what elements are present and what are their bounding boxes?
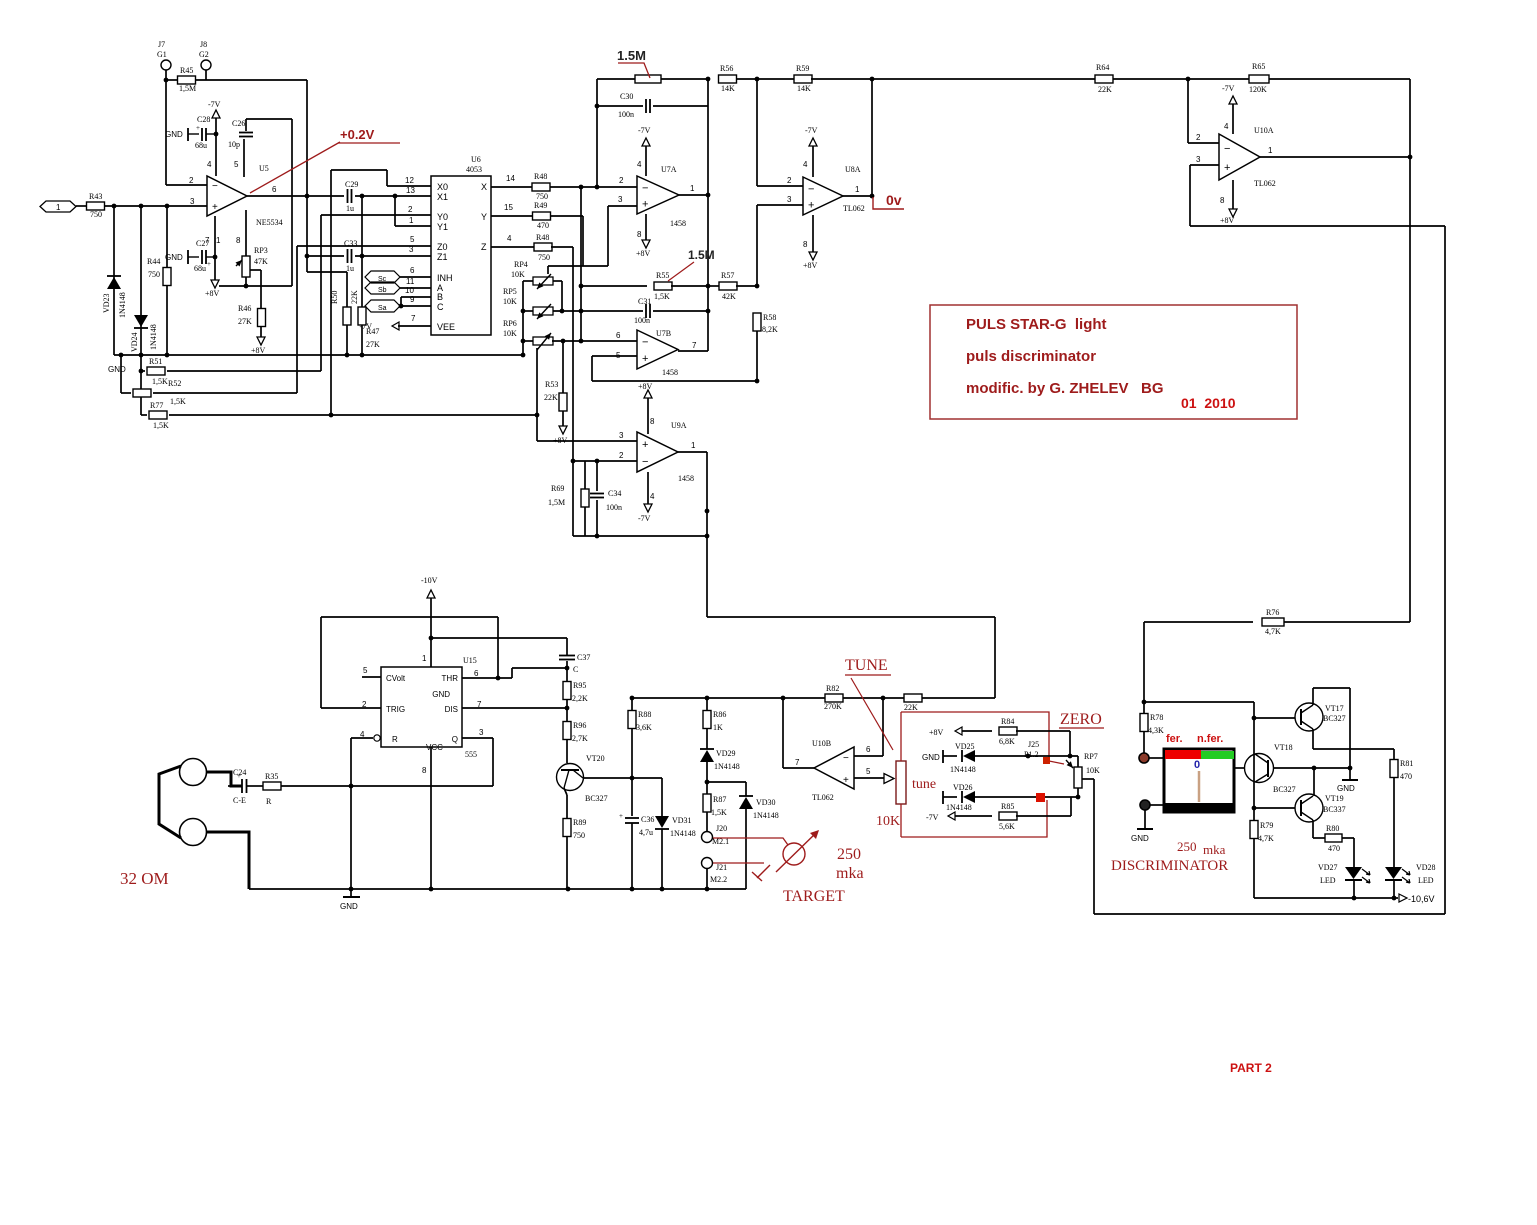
svg-text:R96: R96 — [573, 721, 586, 730]
resistor R43 — [87, 202, 105, 210]
junction VT17 base — [1252, 716, 1257, 721]
svg-text:3: 3 — [190, 197, 195, 206]
svg-text:J8: J8 — [200, 40, 207, 49]
wire to right column — [1269, 78, 1410, 80]
svg-text:U10B: U10B — [812, 739, 831, 748]
junction — [1352, 896, 1357, 901]
wire riser pin2 to pin6 — [580, 187, 582, 341]
wire VD27 bottom — [1353, 880, 1355, 898]
wire RP4 wiper up — [547, 266, 549, 274]
junction — [705, 509, 710, 514]
svg-text:1: 1 — [216, 236, 221, 245]
svg-text:3: 3 — [618, 195, 623, 204]
wire Q row to R35 — [280, 785, 493, 787]
svg-text:C28: C28 — [197, 115, 210, 124]
wire long to R64 — [811, 78, 1095, 80]
power +8V arrow — [211, 280, 219, 288]
svg-text:TARGET: TARGET — [783, 888, 845, 905]
diode VD26 1N4148 — [962, 791, 975, 803]
svg-text:7: 7 — [795, 758, 800, 767]
junction — [706, 77, 711, 82]
wire R pin4 — [351, 737, 373, 739]
svg-text:14K: 14K — [721, 84, 735, 93]
wire right column — [1409, 79, 1411, 622]
transistor VT17 BC327 — [1295, 703, 1323, 731]
op-amp U9A — [637, 432, 678, 472]
junction pin4/C28 — [214, 132, 219, 137]
svg-text:3: 3 — [787, 195, 792, 204]
svg-text:VD30: VD30 — [756, 798, 776, 807]
wire C34 top — [596, 461, 598, 491]
wire Z riser long — [572, 247, 574, 536]
junction — [706, 309, 711, 314]
svg-text:RP4: RP4 — [514, 260, 528, 269]
svg-text:1: 1 — [422, 654, 427, 663]
svg-text:2,2K: 2,2K — [572, 694, 588, 703]
svg-text:n.fer.: n.fer. — [1197, 733, 1223, 745]
capacitor C30 — [646, 99, 650, 113]
wire VT19 emitter — [1312, 820, 1314, 838]
wire U10A pin8 — [1232, 180, 1234, 209]
svg-text:TRIG: TRIG — [386, 705, 405, 714]
svg-text:555: 555 — [465, 750, 477, 759]
junction — [579, 185, 584, 190]
red wire tune pot bottom — [900, 804, 902, 837]
svg-text:4,7K: 4,7K — [1258, 834, 1274, 843]
svg-text:4,3K: 4,3K — [1148, 726, 1164, 735]
wire top row of lower section — [632, 697, 995, 699]
wire THR — [462, 677, 512, 679]
svg-text:C37: C37 — [577, 653, 590, 662]
IC U6 4053 box — [431, 176, 491, 335]
power -10V arrow — [427, 590, 435, 598]
wire DIS to R95/R96 — [462, 707, 567, 709]
wire gnd stub — [350, 889, 352, 897]
wire — [653, 310, 708, 312]
diode VD23 1N4148 — [107, 276, 121, 289]
headphone wire thick — [207, 772, 243, 786]
op-amp U10A — [1219, 134, 1260, 180]
svg-text:1,5K: 1,5K — [153, 421, 169, 430]
wire C36 top — [631, 778, 633, 816]
svg-text:4: 4 — [1224, 122, 1229, 131]
svg-text:GND: GND — [1337, 784, 1355, 793]
svg-text:1N4148: 1N4148 — [946, 803, 972, 812]
wire U7A pin4 — [645, 146, 647, 176]
junction — [630, 887, 635, 892]
svg-text:VD25: VD25 — [955, 742, 975, 751]
resistor R56 — [719, 75, 737, 83]
junction — [566, 887, 571, 892]
red junction marker — [1043, 757, 1050, 764]
wire — [1342, 837, 1354, 839]
junction C29 out — [360, 194, 365, 199]
svg-text:5: 5 — [866, 767, 871, 776]
svg-text:-7V: -7V — [638, 514, 651, 523]
wire U9A pin3 row — [537, 440, 637, 442]
svg-text:R: R — [266, 797, 272, 806]
svg-text:PART 2: PART 2 — [1230, 1061, 1272, 1075]
junction — [165, 353, 170, 358]
wire RP7 top — [1077, 756, 1079, 767]
svg-text:12: 12 — [405, 176, 414, 185]
wire — [523, 340, 533, 342]
wire U10B pin6 — [854, 755, 883, 757]
annotation red wire J21 — [713, 862, 764, 864]
svg-text:R82: R82 — [826, 684, 839, 693]
wire R69 top — [584, 461, 586, 489]
junction — [345, 353, 350, 358]
svg-text:VT19: VT19 — [1325, 794, 1344, 803]
junction — [579, 284, 584, 289]
ground symbol — [1337, 780, 1358, 793]
wire B pin10 — [401, 296, 431, 298]
svg-text:250: 250 — [1177, 839, 1197, 854]
wire U7A pin8 — [645, 214, 647, 240]
junction — [521, 353, 526, 358]
svg-text:C36: C36 — [641, 815, 654, 824]
wire U10A pin2 — [1188, 142, 1219, 144]
wire U10A output — [1260, 156, 1410, 158]
wire to U8A pin2 — [756, 79, 758, 186]
wire output column — [707, 79, 709, 351]
wire Y jog across — [548, 265, 608, 267]
svg-text:−: − — [642, 456, 648, 468]
wire — [671, 285, 708, 287]
red wire tune pot top — [900, 712, 902, 761]
wire U8A pin8 — [812, 215, 814, 252]
svg-text:100n: 100n — [634, 316, 650, 325]
svg-text:+0.2V: +0.2V — [340, 127, 375, 142]
red junction marker — [1036, 793, 1045, 802]
svg-text:2: 2 — [619, 176, 624, 185]
svg-text:Y0: Y0 — [437, 212, 448, 222]
svg-text:X: X — [481, 182, 487, 192]
wire output riser — [782, 698, 784, 768]
wire U10B pin5 — [854, 777, 884, 779]
svg-text:14K: 14K — [797, 84, 811, 93]
svg-text:10K: 10K — [503, 297, 517, 306]
svg-text:4053: 4053 — [466, 165, 482, 174]
svg-text:4: 4 — [637, 160, 642, 169]
power +8V arrow — [559, 426, 567, 434]
junction C30 — [595, 104, 600, 109]
junction — [781, 696, 786, 701]
wire — [706, 762, 708, 794]
op-amp U10B — [814, 747, 854, 789]
annotation 0v wire — [873, 197, 904, 209]
svg-text:R69: R69 — [551, 484, 564, 493]
wire R44 branch — [166, 206, 168, 267]
wire — [166, 79, 177, 81]
wire VD26 row — [975, 796, 1078, 798]
wire RP3 wiper out — [250, 269, 261, 271]
svg-text:8: 8 — [422, 766, 427, 775]
wire R89 bottom — [566, 837, 568, 889]
wire feedback left side — [1093, 779, 1095, 914]
svg-text:−: − — [843, 753, 849, 764]
wire — [943, 755, 957, 757]
svg-text:C29: C29 — [345, 180, 358, 189]
junction — [755, 77, 760, 82]
resistor R89 — [563, 819, 571, 837]
wire — [736, 78, 795, 80]
svg-text:GND: GND — [108, 365, 126, 374]
arrow +8V — [955, 727, 962, 735]
svg-text:0v: 0v — [886, 192, 902, 208]
svg-text:BC337: BC337 — [1323, 805, 1346, 814]
led VD28 — [1385, 867, 1410, 883]
wire RP3 to +8V node — [245, 277, 247, 286]
svg-text:Q: Q — [452, 735, 458, 744]
svg-text:22K: 22K — [350, 290, 359, 304]
svg-text:VD28: VD28 — [1416, 863, 1436, 872]
svg-text:6: 6 — [616, 331, 621, 340]
svg-text:4: 4 — [507, 234, 512, 243]
junction X0 riser — [329, 413, 334, 418]
svg-text:Z0: Z0 — [437, 242, 448, 252]
wire — [1113, 78, 1249, 80]
junction R57/R58 — [755, 284, 760, 289]
wire X out — [491, 186, 532, 188]
wire VEE pin7 — [398, 325, 431, 327]
headphone bracket — [159, 766, 181, 838]
junction — [1186, 77, 1191, 82]
svg-text:1N4148: 1N4148 — [714, 762, 740, 771]
connector J20 M2.1 — [702, 832, 713, 843]
junction C33 left — [305, 254, 310, 259]
wire R76 row — [1144, 621, 1253, 623]
svg-text:C24: C24 — [233, 768, 246, 777]
wire R77 to U9A pin3 riser — [169, 414, 537, 416]
tune pot wiper arrow — [884, 774, 894, 784]
resistor R45 — [178, 76, 196, 84]
wire U8A pin3 — [757, 204, 803, 206]
wire to meter — [1150, 804, 1163, 806]
svg-text:BC327: BC327 — [585, 794, 608, 803]
svg-text:+8V: +8V — [205, 289, 220, 298]
annotation red wire J20 — [713, 838, 788, 845]
svg-text:2,7K: 2,7K — [572, 734, 588, 743]
power -7V arrow — [212, 110, 220, 118]
wire VT19 base — [1254, 807, 1295, 809]
gnd bar — [942, 791, 944, 804]
svg-text:R48: R48 — [534, 172, 547, 181]
wire R50 bottom — [346, 325, 348, 355]
wire C29 to X1 pin13 — [355, 195, 431, 197]
svg-text:32 OM: 32 OM — [120, 869, 169, 888]
junction VT19 collector — [1312, 766, 1317, 771]
svg-text:6: 6 — [866, 745, 871, 754]
wire R81 top — [1393, 749, 1395, 760]
svg-text:1N4148: 1N4148 — [950, 765, 976, 774]
wire C26 up — [245, 119, 247, 131]
svg-text:U10A: U10A — [1254, 126, 1274, 135]
svg-text:1458: 1458 — [670, 219, 686, 228]
svg-text:6: 6 — [272, 185, 277, 194]
junction RP7 bottom — [1076, 795, 1081, 800]
svg-text:INH: INH — [437, 273, 453, 283]
RP3 wiper arrow — [236, 260, 243, 267]
svg-text:PULS STAR-G light: PULS STAR-G light — [966, 316, 1107, 333]
wire C37 bottom — [566, 661, 568, 681]
junction — [705, 534, 710, 539]
junction — [705, 696, 710, 701]
wire VT17 emitter — [1312, 729, 1314, 749]
wire down to R78 — [1143, 622, 1145, 702]
svg-text:4,7u: 4,7u — [639, 828, 653, 837]
svg-text:BC327: BC327 — [1323, 714, 1346, 723]
resistor R85 — [999, 812, 1017, 820]
svg-text:-7V: -7V — [926, 813, 939, 822]
svg-text:VD23: VD23 — [102, 293, 111, 313]
svg-text:R56: R56 — [720, 64, 733, 73]
power +8V arrow — [644, 390, 652, 398]
svg-text:1.5M: 1.5M — [617, 48, 646, 63]
wire down to R82 row — [994, 617, 996, 698]
svg-text:VD29: VD29 — [716, 749, 736, 758]
wire R54 out — [661, 78, 708, 80]
wire input to U5 pin3 — [105, 205, 207, 207]
wire RP6/U7B pin6 row — [552, 340, 637, 342]
wire Q out — [462, 737, 493, 739]
svg-text:47K: 47K — [254, 257, 268, 266]
svg-text:VD26: VD26 — [953, 783, 973, 792]
svg-text:NE5534: NE5534 — [256, 218, 283, 227]
svg-text:VD27: VD27 — [1318, 863, 1338, 872]
svg-text:C30: C30 — [620, 92, 633, 101]
junction — [755, 379, 760, 384]
svg-text:2: 2 — [619, 451, 624, 460]
wire U8A pin3 riser — [756, 205, 758, 286]
svg-text:−: − — [808, 183, 814, 195]
resistor R78 — [1140, 714, 1148, 732]
svg-text:R86: R86 — [713, 710, 726, 719]
svg-text:0: 0 — [1194, 759, 1200, 771]
svg-text:+: + — [207, 260, 211, 268]
headphone jack top circle — [180, 759, 207, 786]
wire CVolt stub — [362, 676, 381, 678]
wire R46 to +8V — [260, 327, 262, 337]
junction — [660, 887, 665, 892]
svg-text:-7V: -7V — [1222, 84, 1235, 93]
svg-text:C: C — [573, 665, 578, 674]
svg-text:GND: GND — [432, 690, 450, 699]
connector meter minus — [1140, 800, 1150, 810]
resistor R50 — [343, 307, 351, 325]
junction — [595, 459, 600, 464]
svg-text:750: 750 — [148, 270, 160, 279]
junction — [1142, 700, 1147, 705]
wire Y1 riser — [394, 196, 396, 226]
annotation TUNE underline — [845, 674, 891, 676]
svg-text:R53: R53 — [545, 380, 558, 389]
svg-text:Y1: Y1 — [437, 222, 448, 232]
wire U7B pin5 — [592, 355, 637, 357]
wire to R54 — [597, 78, 635, 80]
diode VD31 1N4148 — [655, 816, 669, 829]
svg-text:8: 8 — [637, 230, 642, 239]
RP6 wiper arrow — [537, 333, 551, 350]
svg-text:470: 470 — [537, 221, 549, 230]
wire — [141, 414, 147, 416]
svg-text:6: 6 — [410, 266, 415, 275]
wire — [121, 392, 131, 394]
svg-text:3: 3 — [619, 431, 624, 440]
resistor R52 — [133, 389, 151, 397]
svg-text:R43: R43 — [89, 192, 102, 201]
wire VT17 collector — [1312, 688, 1314, 705]
wire — [553, 280, 562, 282]
svg-text:100n: 100n — [606, 503, 622, 512]
svg-text:1,5K: 1,5K — [170, 397, 186, 406]
wire pin4 down — [350, 738, 352, 889]
wire long to tune area — [707, 616, 995, 618]
svg-text:C34: C34 — [608, 489, 621, 498]
power -7V arrow — [644, 504, 652, 512]
wire right feedback — [1444, 226, 1446, 914]
wire — [736, 285, 757, 287]
svg-text:−: − — [642, 337, 648, 349]
svg-text:RP6: RP6 — [503, 319, 517, 328]
capacitor C33 — [348, 249, 352, 263]
svg-text:C31: C31 — [638, 297, 651, 306]
svg-text:1: 1 — [855, 185, 860, 194]
svg-text:1: 1 — [691, 441, 696, 450]
wire feedback riser — [596, 79, 598, 187]
ground symbol — [1131, 829, 1153, 843]
svg-text:tune: tune — [912, 777, 936, 792]
capacitor C29 — [348, 189, 352, 203]
svg-text:270K: 270K — [824, 702, 842, 711]
svg-text:22K: 22K — [904, 703, 918, 712]
svg-text:10p: 10p — [228, 140, 240, 149]
wire output feedback riser — [871, 79, 873, 196]
svg-text:G2: G2 — [199, 50, 209, 59]
wire THR loop left — [320, 617, 322, 708]
svg-text:1u: 1u — [346, 204, 354, 213]
power -7V arrow — [642, 138, 650, 146]
resistor R53 — [559, 393, 567, 411]
resistor R54 — [635, 75, 661, 83]
svg-text:10K: 10K — [503, 329, 517, 338]
wire VD25 row — [975, 755, 1078, 757]
wire B riser — [400, 297, 402, 306]
svg-text:1: 1 — [690, 184, 695, 193]
svg-text:68u: 68u — [194, 264, 206, 273]
svg-text:4: 4 — [650, 492, 655, 501]
wire C pin9 — [400, 305, 431, 307]
wire U5 pin7 to +8V — [214, 216, 216, 280]
junction Y1 riser — [393, 194, 398, 199]
wire Z out — [491, 246, 535, 248]
svg-text:1.5M: 1.5M — [688, 248, 715, 262]
svg-text:R77: R77 — [150, 401, 163, 410]
svg-text:J7: J7 — [158, 40, 165, 49]
wire U5 pin2 — [166, 184, 207, 186]
resistor R49 — [533, 212, 551, 220]
wire to U7A pin3 — [608, 205, 637, 207]
svg-text:470: 470 — [1328, 844, 1340, 853]
wire X to U7A pin2 — [550, 186, 637, 188]
wire — [228, 785, 242, 787]
wire pin6 riser — [882, 698, 884, 756]
svg-text:VD24: VD24 — [130, 332, 139, 352]
svg-text:VCC: VCC — [426, 743, 443, 752]
wire R53 top — [562, 341, 564, 393]
wire G1 to R45 — [165, 70, 167, 80]
wire Z0 riser — [296, 246, 298, 393]
